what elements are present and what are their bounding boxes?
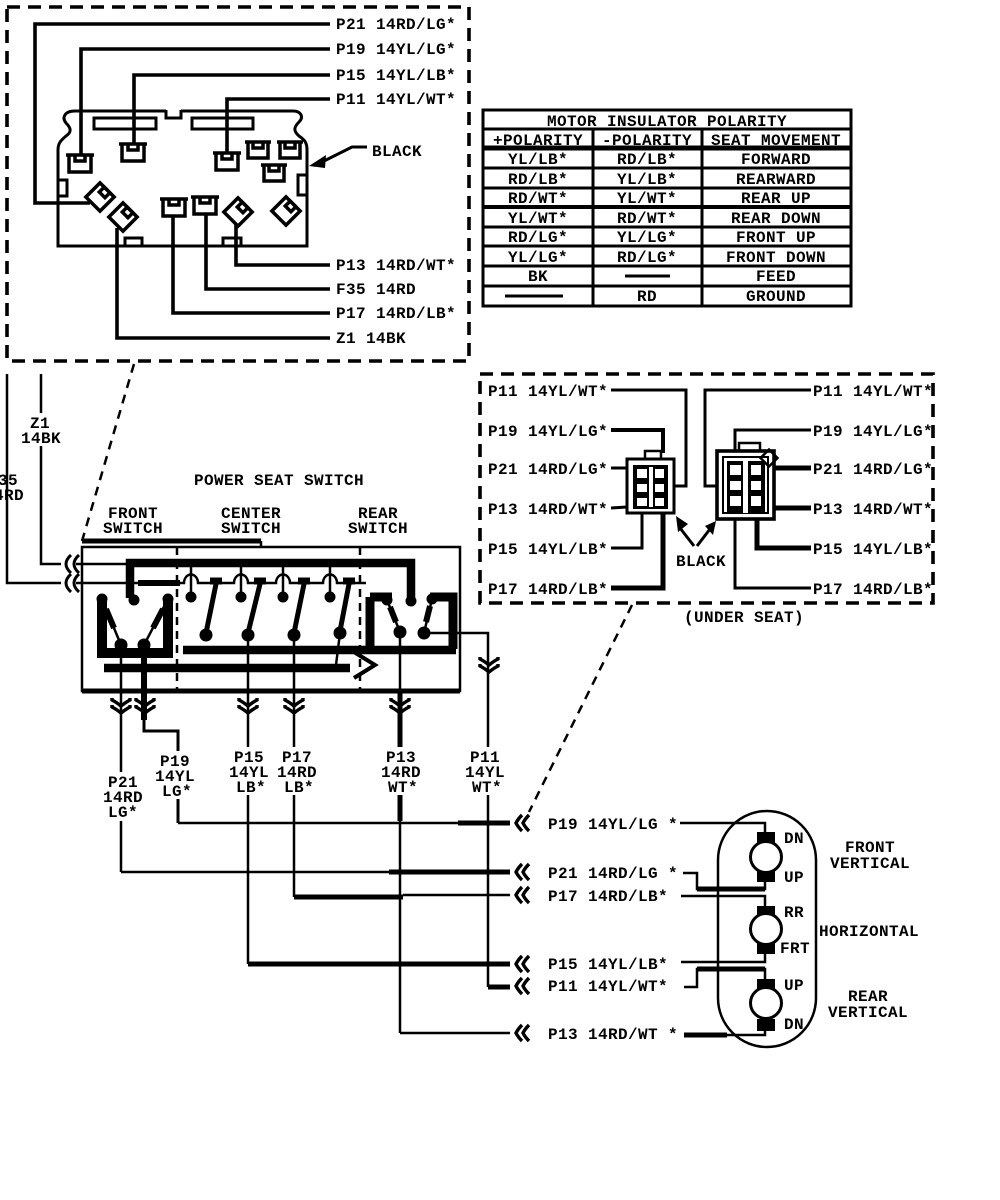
front vertical motor M1: [751, 832, 782, 882]
chevron P13 left: [516, 1025, 529, 1041]
svg-text:(UNDER SEAT): (UNDER SEAT): [684, 609, 804, 627]
svg-text:LB*: LB*: [236, 779, 266, 797]
bus A top feed: [130, 563, 411, 599]
connector C100 outline: [58, 111, 307, 246]
svg-text:POWER SEAT SWITCH: POWER SEAT SWITCH: [194, 472, 364, 490]
wire us P15 left: [611, 512, 642, 548]
svg-text:FRT: FRT: [780, 940, 810, 958]
svg-text:LB*: LB*: [284, 779, 314, 797]
wire P21 column: [120, 645, 123, 872]
front U conductor: [102, 598, 168, 653]
chevron in Z1 wire: [66, 555, 79, 573]
svg-text:SWITCH: SWITCH: [221, 520, 281, 538]
svg-text:P19 14YL/LG*: P19 14YL/LG*: [813, 423, 933, 441]
wire into box top: [76, 563, 130, 566]
wire P15: [134, 75, 330, 144]
wire Z1: [117, 228, 330, 338]
svg-text:P21 14RD/LG *: P21 14RD/LG *: [548, 865, 678, 883]
wire us P15 right: [757, 519, 811, 548]
terminal P19 cup: [66, 155, 94, 172]
dash in ground row: [505, 295, 563, 298]
wire P17 run: [294, 895, 403, 900]
svg-text:P11 14YL/WT*: P11 14YL/WT*: [548, 978, 668, 996]
svg-text:P11 14YL/WT*: P11 14YL/WT*: [336, 91, 456, 109]
wire P11 run: [488, 985, 510, 990]
chevron P11 down: [480, 657, 498, 672]
center bottom dots: [200, 629, 212, 641]
svg-text:14RD: 14RD: [0, 487, 24, 505]
front blade 1: [102, 599, 121, 645]
table frame: [483, 110, 851, 306]
svg-text:P17 14RD/LB*: P17 14RD/LB*: [336, 305, 456, 323]
wire us P19 left: [611, 430, 663, 453]
leader arrow BLACK: [309, 147, 367, 168]
chevron in F35 wire: [66, 574, 79, 592]
svg-text:YL/LG*: YL/LG*: [508, 249, 568, 267]
wire us P11 left: [611, 390, 686, 486]
svg-text:P15 14YL/LB*: P15 14YL/LB*: [488, 541, 608, 559]
svg-text:WT*: WT*: [388, 779, 418, 797]
chevron P15 left: [516, 956, 529, 972]
svg-text:MOTOR INSULATOR POLARITY: MOTOR INSULATOR POLARITY: [547, 113, 787, 131]
wire P21 to UP: [683, 873, 765, 889]
svg-text:UP: UP: [784, 869, 804, 887]
rear blade 1: [387, 600, 400, 632]
terminal cup E: [277, 142, 303, 158]
divider center/rear: [359, 547, 362, 691]
labels under switch: [101, 747, 509, 821]
wire us P21 left: [611, 467, 627, 470]
center blade 2: [254, 578, 266, 585]
wire Z1 left: [41, 374, 61, 564]
svg-text:Z1 14BK: Z1 14BK: [336, 330, 406, 348]
svg-text:P19 14YL/LG *: P19 14YL/LG *: [548, 816, 678, 834]
svg-text:UP: UP: [784, 977, 804, 995]
svg-text:REAR DOWN: REAR DOWN: [731, 210, 821, 228]
terminal P17 cup: [160, 199, 188, 216]
terminal P13 diamond: [224, 198, 252, 226]
wire P15 column: [247, 635, 250, 964]
divider front/center: [176, 547, 179, 691]
svg-text:SWITCH: SWITCH: [348, 520, 408, 538]
wire P11 to UP rear: [684, 969, 765, 987]
terminal P11 cup: [213, 153, 241, 170]
svg-text:P19 14YL/LG*: P19 14YL/LG*: [488, 423, 608, 441]
svg-text:DN: DN: [784, 1016, 804, 1034]
chevron P11 left: [516, 978, 529, 994]
wire P19 to DN: [680, 823, 765, 832]
terminal P15 cup: [119, 144, 147, 161]
wire P19: [81, 49, 330, 155]
svg-text:BK: BK: [528, 268, 548, 286]
svg-text:P17 14RD/LB*: P17 14RD/LB*: [813, 581, 933, 599]
svg-text:P15 14YL/LB*: P15 14YL/LB*: [548, 956, 668, 974]
svg-text:YL/WT*: YL/WT*: [508, 210, 568, 228]
svg-text:YL/WT*: YL/WT*: [617, 190, 677, 208]
svg-text:FRONT UP: FRONT UP: [736, 229, 816, 247]
wire P13 column: [399, 632, 402, 692]
chevron P13 down: [391, 698, 409, 713]
wire us P19 right: [735, 430, 811, 451]
svg-text:FEED: FEED: [756, 268, 796, 286]
wire P19 run: [178, 822, 458, 825]
svg-text:BLACK: BLACK: [676, 553, 726, 571]
svg-text:P13 14RD/WT*: P13 14RD/WT*: [488, 501, 608, 519]
svg-text:P15 14YL/LB*: P15 14YL/LB*: [813, 541, 933, 559]
front contacts: [97, 594, 107, 604]
wire us P21 right: [774, 466, 811, 471]
svg-text:SEAT MOVEMENT: SEAT MOVEMENT: [711, 132, 841, 150]
dashed enclosure under seat: [480, 374, 933, 603]
svg-text:P15 14YL/LB*: P15 14YL/LB*: [336, 67, 456, 85]
rear vertical motor M3: [751, 979, 782, 1031]
svg-text:RD/LG*: RD/LG*: [508, 229, 568, 247]
center stub 1: [190, 567, 193, 594]
thick top segment: [82, 539, 261, 544]
wire P11: [227, 99, 330, 153]
svg-text:GROUND: GROUND: [746, 288, 806, 306]
chevron P17 down: [285, 698, 303, 713]
key slot left: [58, 180, 67, 196]
bottom tab 2: [223, 238, 241, 246]
svg-text:P13 14RD/WT*: P13 14RD/WT*: [813, 501, 933, 519]
BLACK arrows under seat: [676, 516, 716, 546]
wire A feed thick segment: [138, 580, 180, 586]
svg-text:HORIZONTAL: HORIZONTAL: [819, 923, 919, 941]
svg-text:+POLARITY: +POLARITY: [493, 132, 583, 150]
svg-text:-POLARITY: -POLARITY: [602, 132, 692, 150]
front blade 2: [144, 599, 168, 645]
wire P17: [173, 216, 330, 313]
chevron P19 left: [516, 815, 529, 831]
svg-text:P19 14YL/LG*: P19 14YL/LG*: [336, 41, 456, 59]
wire P21 run: [121, 871, 389, 874]
center stub dots: [186, 592, 196, 602]
svg-text:VERTICAL: VERTICAL: [830, 855, 910, 873]
wire P17 to RR: [681, 896, 765, 906]
svg-text:RR: RR: [784, 904, 804, 922]
dash in feed row: [625, 275, 670, 278]
svg-text:P11 14YL/WT*: P11 14YL/WT*: [813, 383, 933, 401]
svg-text:LG*: LG*: [108, 804, 138, 822]
terminal cup D: [245, 142, 271, 158]
svg-text:VERTICAL: VERTICAL: [828, 1004, 908, 1022]
svg-text:YL/LG*: YL/LG*: [617, 229, 677, 247]
terminal P21 diamond: [86, 183, 114, 211]
center blade 1: [210, 578, 222, 585]
svg-text:REAR UP: REAR UP: [741, 190, 811, 208]
dashed leader top box to switch: [82, 364, 134, 541]
svg-text:RD/LB*: RD/LB*: [617, 151, 677, 169]
terminal cup F: [261, 165, 287, 181]
horizontal motor M2: [751, 906, 782, 954]
wire us P11 right: [705, 390, 811, 486]
svg-text:P17 14RD/LB*: P17 14RD/LB*: [548, 888, 668, 906]
switch box outline: [82, 541, 460, 691]
wire P13: [236, 224, 330, 265]
svg-text:YL/LB*: YL/LB*: [617, 171, 677, 189]
center stub 3: [282, 567, 285, 594]
top notch: [166, 110, 181, 118]
rear U conductor: [370, 597, 453, 649]
key slot right: [298, 175, 307, 195]
wire into box bottom: [76, 582, 138, 585]
svg-text:RD/LB*: RD/LB*: [508, 171, 568, 189]
chevron P21 down: [112, 698, 130, 713]
wire us P17 right: [735, 519, 811, 588]
svg-text:P21 14RD/LG*: P21 14RD/LG*: [813, 461, 933, 479]
thick bottom edge: [82, 689, 460, 694]
svg-text:FRONT DOWN: FRONT DOWN: [726, 249, 826, 267]
polarizing rib 1: [94, 118, 156, 129]
wire P15 to FRT: [681, 954, 765, 962]
svg-text:P21 14RD/LG*: P21 14RD/LG*: [336, 16, 456, 34]
wire A across center with arcs: [180, 575, 366, 584]
bus C arrowhead: [354, 652, 375, 678]
wire P11 exit right: [424, 633, 488, 987]
wire P15 run: [248, 962, 510, 967]
center stub 4: [329, 567, 332, 594]
center stub 2: [240, 567, 243, 594]
connector C100 dashed enclosure: [7, 7, 469, 361]
diamond marker top right: [761, 450, 778, 467]
svg-text:P13 14RD/WT*: P13 14RD/WT*: [336, 257, 456, 275]
chevron P21 left: [516, 864, 529, 880]
bottom tab 1: [125, 238, 142, 246]
terminal F35 cup: [191, 197, 219, 214]
svg-text:F35 14RD: F35 14RD: [336, 281, 416, 299]
wire F35: [206, 214, 330, 289]
svg-text:P11 14YL/WT*: P11 14YL/WT*: [488, 383, 608, 401]
terminal diamond spare: [272, 197, 300, 225]
polarizing rib 2: [192, 118, 253, 129]
svg-text:REARWARD: REARWARD: [736, 171, 816, 189]
rear blade 2: [424, 599, 432, 633]
center blade 4: [343, 578, 355, 585]
wire F35 left: [7, 374, 61, 583]
svg-text:P13 14RD/WT *: P13 14RD/WT *: [548, 1026, 678, 1044]
svg-text:14BK: 14BK: [21, 430, 61, 448]
wire P21: [35, 24, 330, 203]
motor housing oval: [718, 811, 816, 1047]
svg-text:SWITCH: SWITCH: [103, 520, 163, 538]
contact dots and blades: [97, 581, 437, 651]
svg-text:RD/WT*: RD/WT*: [617, 210, 677, 228]
svg-text:LG*: LG*: [162, 783, 192, 801]
center blade 3: [298, 578, 310, 585]
svg-text:RD/LG*: RD/LG*: [617, 249, 677, 267]
svg-text:P21 14RD/LG*: P21 14RD/LG*: [488, 461, 608, 479]
svg-text:DN: DN: [784, 830, 804, 848]
wire P13 run: [400, 1032, 510, 1035]
svg-text:P17 14RD/LB*: P17 14RD/LB*: [488, 581, 608, 599]
rear contacts: [382, 595, 392, 605]
svg-text:YL/LB*: YL/LB*: [508, 151, 568, 169]
svg-text:WT*: WT*: [472, 779, 502, 797]
dashed leader under-seat box to chevrons: [529, 605, 632, 812]
bus B bottom: [183, 646, 456, 655]
wire us P13 left: [611, 507, 627, 508]
wire us P17 left: [611, 512, 663, 588]
chevron P15 down: [239, 698, 257, 713]
svg-text:FORWARD: FORWARD: [741, 151, 811, 169]
wire P13 to DN rear: [684, 1033, 727, 1038]
svg-text:RD/WT*: RD/WT*: [508, 190, 568, 208]
terminal Z1 diamond: [109, 203, 137, 231]
wire us P13 right: [774, 506, 811, 511]
wire P19 column: [144, 645, 178, 823]
chevron P19 down: [136, 698, 154, 713]
svg-text:BLACK: BLACK: [372, 143, 422, 161]
svg-text:RD: RD: [637, 288, 657, 306]
bus C bottom: [104, 664, 350, 673]
wire P17 column: [293, 635, 296, 897]
chevron P17 left: [516, 887, 529, 903]
